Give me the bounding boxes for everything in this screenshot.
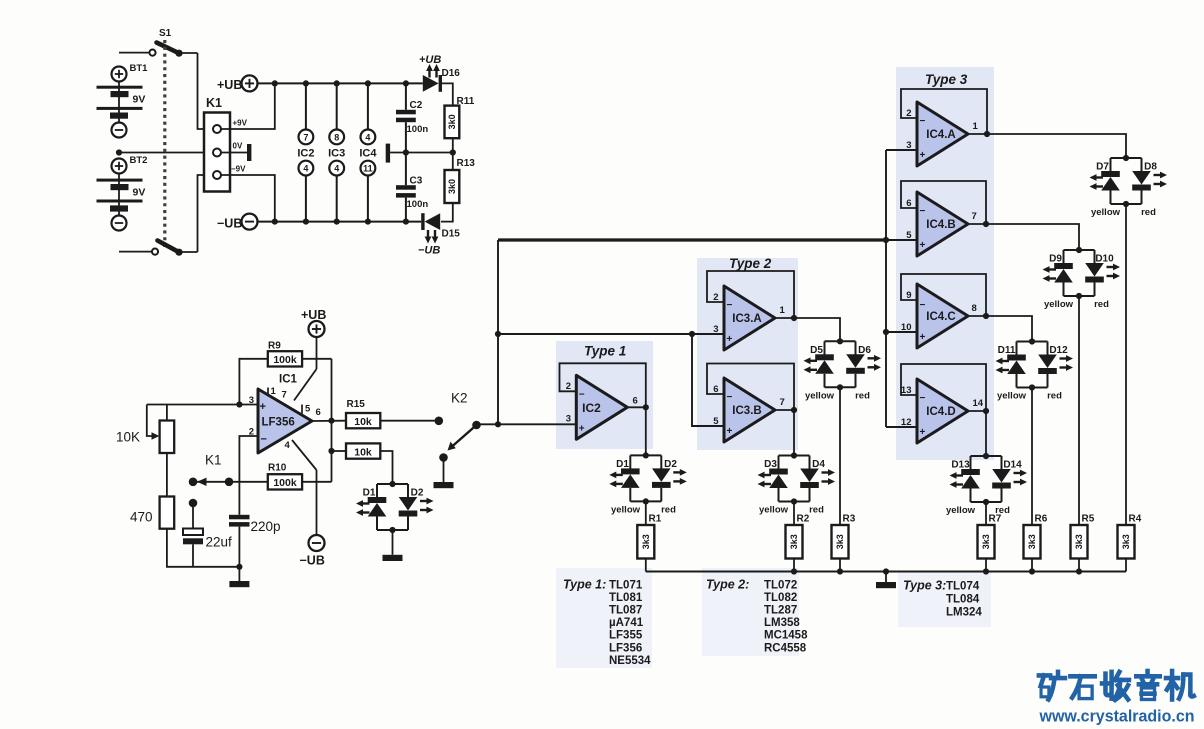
svg-text:11: 11: [363, 164, 373, 174]
svg-text:8: 8: [334, 132, 339, 142]
svg-text:−UB: −UB: [300, 554, 325, 568]
wire S1 pole2 to K1 -9V: [198, 175, 214, 252]
list background type3: [898, 572, 991, 627]
svg-text:3: 3: [906, 140, 911, 151]
op-amp IC4.D: [917, 379, 968, 443]
svg-text:LF356: LF356: [609, 642, 642, 654]
feedback loop IC4.D: [901, 364, 986, 411]
svg-text:C3: C3: [410, 175, 423, 186]
svg-text:Type 3: Type 3: [925, 72, 968, 87]
svg-text:5: 5: [906, 230, 912, 241]
svg-text:IC4.C: IC4.C: [926, 311, 955, 323]
wire IC4.D output to LED pair D13 D14: [985, 411, 987, 456]
svg-text:IC4.D: IC4.D: [926, 406, 955, 418]
svg-text:D10: D10: [1095, 254, 1114, 265]
wire R9/R10 right vertical to output: [331, 359, 333, 482]
svg-text:LM324: LM324: [946, 607, 982, 619]
svg-text:R4: R4: [1129, 514, 1142, 525]
feedback loop IC4.B: [901, 181, 986, 224]
svg-text:RC4558: RC4558: [764, 642, 807, 654]
svg-text:D13: D13: [951, 460, 970, 471]
svg-text:MC1458: MC1458: [764, 630, 808, 642]
svg-text:13: 13: [901, 385, 912, 396]
mechanical link dashes of S1: [163, 40, 166, 247]
svg-text:red: red: [661, 505, 676, 516]
wire type3 input bus vertical: [885, 150, 887, 427]
svg-text:−UB: −UB: [217, 217, 242, 231]
svg-text:2: 2: [906, 108, 911, 119]
svg-text:D16: D16: [442, 68, 461, 79]
svg-text:red: red: [1141, 207, 1156, 218]
svg-text:3: 3: [249, 395, 254, 406]
svg-text:D2: D2: [411, 488, 424, 499]
svg-text:5: 5: [713, 416, 719, 427]
svg-text:3: 3: [713, 324, 718, 335]
svg-text:14: 14: [973, 398, 984, 409]
wire signal to type2 inputs: [498, 333, 724, 335]
capacitor 22uf electrolytic: [189, 499, 198, 508]
svg-text:22uf: 22uf: [206, 535, 233, 550]
feedback loop IC3.B: [707, 364, 794, 411]
svg-text:10k: 10k: [354, 446, 372, 458]
svg-text:D2: D2: [664, 459, 677, 470]
wire 470 to ground bus: [167, 529, 240, 567]
svg-text:TL074: TL074: [946, 581, 980, 593]
svg-text:+9V: +9V: [233, 119, 248, 128]
wire IC3.A output to LED pair D5 D6: [794, 318, 840, 341]
svg-text:3k0: 3k0: [447, 114, 457, 129]
svg-text:BT1: BT1: [130, 63, 149, 74]
svg-text:9V: 9V: [133, 94, 146, 106]
LED pair D7 D8 yellow red: [1090, 155, 1168, 207]
LED pair D1 D2 at IC1 output: [356, 481, 434, 533]
wire D7 D8 down to R4: [1125, 204, 1127, 525]
LED pair D5 D6 yellow red: [804, 338, 882, 390]
highlight box type1: [556, 341, 653, 449]
svg-text:220p: 220p: [251, 519, 281, 534]
op-amp IC2: [576, 375, 627, 439]
svg-text:D1: D1: [616, 459, 629, 470]
capacitor C3: [405, 153, 407, 186]
wire R15 to K2 contact: [380, 420, 435, 422]
watermark chinese characters kuang shi shou yin ji: [1039, 671, 1194, 699]
svg-text:yellow: yellow: [805, 391, 835, 402]
LED pair D1 D2 yellow red under IC2: [609, 452, 687, 504]
wire IC3.B output: [775, 409, 794, 411]
svg-text:TL072: TL072: [764, 580, 797, 592]
wire D16 to R11: [442, 83, 453, 105]
wire signal vertical riser: [497, 240, 499, 424]
svg-text:−: −: [727, 300, 733, 311]
svg-text:+: +: [727, 334, 733, 345]
svg-text:D8: D8: [1144, 162, 1157, 173]
wire K2 to IC2 input: [477, 423, 577, 425]
svg-text:100n: 100n: [407, 124, 429, 135]
0V rail bar left: [247, 144, 251, 161]
svg-text:6: 6: [906, 198, 911, 209]
wire IC4.D output: [968, 410, 986, 412]
svg-text:Type 3:: Type 3:: [903, 579, 946, 593]
LED pair D9 D10 yellow red: [1043, 247, 1121, 299]
wire IC4.A pin3 input: [886, 149, 917, 151]
battery BT2: [118, 159, 120, 231]
svg-text:−: −: [579, 389, 585, 400]
svg-text:D11: D11: [998, 345, 1016, 356]
IC4 supply pins stub: [367, 83, 369, 129]
svg-text:yellow: yellow: [759, 505, 789, 516]
svg-text:−UB: −UB: [418, 245, 440, 257]
svg-text:IC4.B: IC4.B: [926, 219, 955, 231]
wire non-inverting input pin3 of IC1: [147, 404, 258, 406]
svg-text:red: red: [1094, 299, 1109, 310]
svg-text:D9: D9: [1049, 254, 1062, 265]
wire IC4.C pin10 input: [886, 331, 917, 333]
pin 5 stub of IC1: [301, 405, 303, 414]
svg-text:IC2: IC2: [297, 147, 314, 159]
svg-text:K2: K2: [451, 391, 468, 406]
wire IC4.A output to LED pair D7 D8: [987, 134, 1126, 158]
highlight box type3: [896, 67, 994, 460]
svg-text:Type 2: Type 2: [729, 256, 772, 271]
wire K1 0V stub: [221, 152, 247, 154]
svg-text:+: +: [920, 427, 926, 438]
svg-text:µA741: µA741: [609, 617, 644, 629]
svg-text:K1: K1: [205, 453, 222, 468]
svg-text:LF356: LF356: [262, 417, 295, 429]
IC3 supply pins stub: [336, 83, 338, 129]
svg-text:Type 1:: Type 1:: [563, 578, 606, 592]
svg-text:R2: R2: [797, 514, 810, 525]
svg-text:TL071: TL071: [609, 580, 643, 592]
svg-text:2: 2: [713, 292, 718, 303]
svg-text:+: +: [920, 150, 926, 161]
wire 0V to K1: [119, 152, 213, 154]
wire IC3.B output to LED pair D3 D4: [793, 410, 795, 456]
wire +UB rail: [258, 82, 423, 84]
svg-text:red: red: [809, 505, 824, 516]
list background type1: [556, 568, 652, 668]
wire D5 D6 down to R3: [839, 387, 841, 525]
svg-text:−: −: [920, 393, 926, 404]
LED pair D11 D12 yellow red: [996, 338, 1074, 390]
wire IC4.D pin12 input: [886, 426, 917, 428]
wire K1 -9V to -UB rail: [221, 175, 275, 222]
op-amp IC4.C: [917, 284, 968, 348]
LED pair D3 D4 yellow red: [758, 452, 836, 504]
wire R13 to D15: [441, 203, 453, 222]
ground under 220p: [238, 567, 240, 581]
resistor R1 3k3: [645, 501, 647, 525]
wire -UB rail: [258, 221, 422, 223]
wire IC1 output: [312, 420, 346, 422]
svg-text:D15: D15: [442, 229, 461, 240]
svg-text:www.crystalradio.cn: www.crystalradio.cn: [1039, 708, 1195, 726]
svg-text:D12: D12: [1049, 345, 1068, 356]
svg-text:4: 4: [334, 164, 339, 174]
wire IC2 output: [627, 406, 646, 408]
svg-text:470: 470: [130, 510, 153, 525]
svg-text:R10: R10: [268, 463, 287, 474]
op-amp IC4.A: [917, 102, 968, 166]
svg-text:1: 1: [780, 305, 786, 316]
wire branch to IC3.B pin5: [692, 334, 724, 426]
svg-text:IC1: IC1: [279, 374, 298, 386]
wire 0V to R11/R13 junction: [390, 152, 453, 154]
feedback loop IC4.A: [901, 89, 987, 134]
LED pair D13 D14 yellow red: [950, 453, 1028, 505]
svg-text:R3: R3: [843, 514, 856, 525]
svg-text:7: 7: [303, 132, 308, 142]
svg-text:D7: D7: [1096, 162, 1109, 173]
svg-text:IC3: IC3: [328, 147, 345, 159]
svg-text:7: 7: [282, 390, 287, 401]
svg-text:R9: R9: [268, 341, 281, 352]
svg-text:D6: D6: [858, 345, 871, 356]
pin 7 supply wire of IC1: [294, 369, 317, 401]
op-amp IC3.A: [724, 286, 775, 350]
svg-text:NE5534: NE5534: [609, 655, 651, 667]
IC2 supply pins stub: [305, 83, 307, 129]
svg-text:4: 4: [303, 164, 308, 174]
svg-text:−: −: [920, 206, 926, 217]
svg-text:1: 1: [271, 386, 277, 397]
svg-text:100k: 100k: [273, 477, 297, 489]
wire K1 +9V to +UB rail: [221, 83, 275, 129]
feedback loop IC2: [560, 363, 646, 407]
op-amp IC4.B: [917, 192, 968, 256]
wire inverting input pin2 of IC1: [239, 436, 258, 482]
wire signal main bus to type3: [498, 238, 886, 241]
svg-text:7: 7: [780, 397, 785, 408]
svg-text:6: 6: [633, 396, 638, 407]
svg-text:R15: R15: [347, 399, 366, 410]
svg-text:Type 2:: Type 2:: [706, 578, 749, 592]
svg-text:100n: 100n: [407, 199, 429, 210]
svg-text:D5: D5: [810, 345, 823, 356]
svg-text:R5: R5: [1082, 514, 1095, 525]
svg-text:+UB: +UB: [217, 78, 242, 92]
svg-text:IC4.A: IC4.A: [926, 129, 955, 141]
svg-text:6: 6: [316, 407, 321, 418]
capacitor 220p: [238, 482, 240, 515]
pin 1 stub of IC1: [267, 388, 269, 395]
wire IC2 output to LED pair: [645, 407, 647, 455]
resistor 10k to LED D1 D2: [328, 448, 334, 454]
svg-text:−: −: [920, 116, 926, 127]
svg-text:K1: K1: [206, 96, 222, 110]
svg-text:red: red: [855, 391, 870, 402]
svg-text:red: red: [1047, 391, 1062, 402]
svg-text:TL087: TL087: [609, 605, 642, 617]
svg-text:+: +: [920, 332, 926, 343]
svg-text:1: 1: [973, 121, 979, 132]
svg-text:D3: D3: [764, 459, 777, 470]
svg-text:4: 4: [365, 132, 370, 142]
node 0V junction between batteries: [116, 149, 122, 155]
switch S1 pole 2: [119, 251, 152, 253]
svg-text:D4: D4: [812, 459, 825, 470]
svg-text:TL084: TL084: [946, 594, 980, 606]
svg-text:IC2: IC2: [582, 401, 601, 415]
ground under D1 D2 pair: [392, 530, 394, 555]
wire IC4.B pin5 input: [886, 239, 917, 241]
svg-text:3k0: 3k0: [447, 179, 457, 194]
svg-text:Type 1: Type 1: [584, 344, 626, 359]
svg-text:10K: 10K: [116, 430, 140, 445]
svg-text:LF355: LF355: [609, 630, 643, 642]
svg-text:IC3.A: IC3.A: [732, 313, 761, 325]
svg-text:5: 5: [305, 404, 311, 415]
wire IC3.A output: [775, 317, 794, 319]
svg-text:S1: S1: [159, 28, 172, 39]
svg-text:C2: C2: [410, 100, 423, 111]
svg-text:−9V: −9V: [231, 165, 246, 174]
wire D11 D12 down to R6: [1031, 388, 1033, 526]
feedback loop IC3.A: [707, 271, 794, 318]
svg-text:9V: 9V: [133, 187, 146, 199]
node 0V mid: [386, 144, 390, 163]
list background type2: [702, 568, 799, 656]
svg-text:2: 2: [566, 381, 571, 392]
resistor R7 3k3: [985, 502, 987, 525]
svg-text:+: +: [920, 240, 926, 251]
wire IC4.B output: [968, 223, 986, 225]
svg-text:R13: R13: [457, 158, 476, 169]
svg-text:LM358: LM358: [764, 617, 800, 629]
svg-text:R7: R7: [989, 514, 1002, 525]
svg-text:9: 9: [906, 290, 911, 301]
svg-text:12: 12: [901, 417, 912, 428]
svg-text:7: 7: [972, 211, 977, 222]
wire IC4.C output: [968, 315, 986, 317]
op-amp IC3.B: [724, 378, 775, 442]
svg-text:6: 6: [713, 384, 718, 395]
terminal -UB below IC1: [316, 470, 318, 535]
highlight box type2: [697, 258, 798, 450]
svg-text:R6: R6: [1035, 514, 1048, 525]
svg-text:R1: R1: [649, 514, 662, 525]
wire D9 D10 down to R5: [1078, 296, 1080, 525]
battery BT1: [118, 67, 120, 138]
pin 4 supply wire of IC1: [292, 440, 317, 470]
svg-text:yellow: yellow: [997, 391, 1027, 402]
svg-text:+: +: [260, 401, 266, 413]
svg-text:2: 2: [249, 427, 254, 438]
svg-text:D14: D14: [1003, 460, 1022, 471]
svg-text:IC4: IC4: [359, 147, 377, 159]
svg-text:TL081: TL081: [609, 592, 643, 604]
wire IC4.A output: [968, 133, 987, 135]
LED D15: [421, 213, 424, 230]
svg-text:yellow: yellow: [1091, 207, 1121, 218]
wire R11 to R13: [452, 138, 454, 170]
svg-text:+: +: [727, 426, 733, 437]
svg-text:TL287: TL287: [764, 605, 797, 617]
svg-text:−: −: [727, 392, 733, 403]
wire IC4.C output to LED pair D11 D12: [986, 316, 1032, 342]
wire S1 pole1 to K1 +9V: [198, 53, 214, 129]
wire bottom bus: [646, 571, 1126, 573]
svg-text:10: 10: [901, 322, 912, 333]
svg-text:BT2: BT2: [130, 155, 148, 166]
svg-text:+UB: +UB: [419, 54, 441, 66]
ground of bottom bus: [885, 572, 887, 583]
svg-text:10k: 10k: [354, 416, 372, 428]
wire IC4.B output to LED pair D9 D10: [986, 224, 1079, 250]
svg-text:IC3.B: IC3.B: [732, 405, 761, 417]
capacitor C2: [405, 83, 407, 109]
svg-text:−: −: [261, 434, 267, 446]
svg-text:+: +: [579, 423, 585, 434]
svg-text:0V: 0V: [233, 142, 243, 151]
svg-text:yellow: yellow: [1044, 299, 1074, 310]
svg-text:3: 3: [566, 414, 571, 425]
svg-text:8: 8: [972, 303, 977, 314]
ground under K2: [443, 458, 445, 483]
svg-text:4: 4: [285, 440, 291, 451]
svg-text:TL082: TL082: [764, 592, 797, 604]
svg-text:−: −: [920, 300, 926, 311]
feedback loop IC4.C: [901, 274, 986, 316]
svg-text:yellow: yellow: [946, 505, 976, 516]
svg-text:+UB: +UB: [301, 308, 326, 322]
svg-text:D1: D1: [363, 488, 376, 499]
resistor R2 3k3: [793, 502, 795, 526]
svg-text:yellow: yellow: [611, 505, 641, 516]
switch S1 pole 1: [119, 52, 149, 54]
svg-text:100k: 100k: [273, 354, 297, 366]
